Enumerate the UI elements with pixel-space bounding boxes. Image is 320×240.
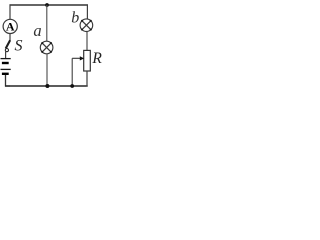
wire ammeter to switch xyxy=(9,34,11,41)
svg-text:S: S xyxy=(15,38,23,55)
lamp a xyxy=(40,41,53,54)
svg-text:a: a xyxy=(33,21,41,40)
svg-text:R: R xyxy=(91,50,102,67)
svg-text:b: b xyxy=(71,10,79,27)
wire middle upper xyxy=(46,5,48,42)
node junction bottom middle xyxy=(45,84,49,88)
node junction bottom right xyxy=(70,84,74,88)
wire middle lower xyxy=(46,54,48,86)
switch S xyxy=(5,40,10,51)
wire wiper to bottom xyxy=(71,58,73,86)
wire lamp b to resistor xyxy=(86,31,88,50)
battery cell1 short thick plate xyxy=(2,62,9,64)
wire resistor to bottom xyxy=(86,71,88,87)
wire battery to bottom xyxy=(6,75,11,86)
wire top xyxy=(10,4,88,6)
rheostat wiper arrow xyxy=(72,56,84,60)
battery cell1 long plate xyxy=(1,58,11,60)
battery cell2 long plate xyxy=(1,68,11,70)
ammeter A1 xyxy=(3,19,17,33)
wire right upper xyxy=(86,4,88,19)
lamp b xyxy=(80,19,93,32)
wire left upper xyxy=(9,4,11,19)
node junction top middle xyxy=(45,3,49,7)
resistor R (rheostat body) xyxy=(84,50,91,71)
svg-text:A: A xyxy=(6,20,15,34)
wire switch to battery xyxy=(5,52,7,59)
wire bottom xyxy=(5,85,88,87)
battery cell2 short thick plate xyxy=(2,73,9,75)
